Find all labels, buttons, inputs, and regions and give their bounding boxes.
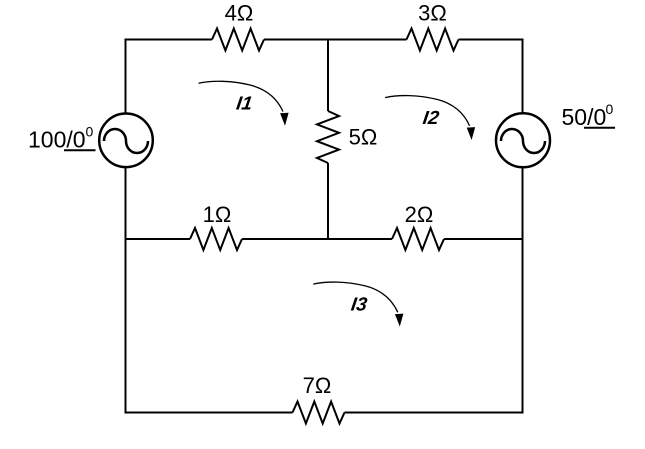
- svg-text:2Ω: 2Ω: [405, 202, 434, 227]
- wire middle vertical lower: [327, 163, 329, 240]
- resistor 7Ω: [293, 402, 345, 424]
- wire right upper: [522, 39, 524, 115]
- wire top-right segment: [459, 39, 523, 41]
- svg-text:0: 0: [606, 101, 614, 117]
- value label 50∠0°: [562, 101, 616, 130]
- resistor 3Ω: [407, 29, 459, 51]
- svg-text:4Ω: 4Ω: [225, 0, 254, 25]
- resistor 2Ω: [392, 228, 444, 250]
- svg-text:100/0: 100/0: [28, 127, 86, 153]
- svg-text:5Ω: 5Ω: [349, 124, 378, 149]
- svg-text:I3: I3: [350, 294, 369, 315]
- wire bottom-left segment: [126, 412, 293, 414]
- wire right lower: [522, 167, 524, 414]
- svg-text:1Ω: 1Ω: [203, 202, 232, 227]
- mesh current arrow I3: [313, 282, 403, 326]
- AC source V2: [496, 113, 550, 167]
- svg-text:7Ω: 7Ω: [303, 373, 332, 398]
- svg-text:I1: I1: [235, 94, 254, 115]
- wire top-middle segment: [264, 39, 407, 41]
- resistor 1Ω: [190, 228, 242, 250]
- mesh current arrow I2: [385, 96, 475, 140]
- wire top-left segment: [126, 39, 213, 41]
- svg-text:0: 0: [86, 124, 94, 140]
- wire middle-left segment: [126, 238, 191, 240]
- wire bottom-right segment: [345, 412, 523, 414]
- wire left lower: [125, 167, 127, 414]
- resistor 5Ω: [317, 111, 339, 163]
- resistor 4Ω: [212, 29, 264, 51]
- wire middle vertical upper: [327, 40, 329, 112]
- AC source V1: [99, 114, 153, 168]
- wire left upper: [125, 39, 127, 115]
- mesh current arrow I1: [199, 81, 289, 125]
- wire middle-right segment: [444, 238, 523, 240]
- svg-text:50/0: 50/0: [562, 104, 607, 130]
- value label 100∠0°: [28, 124, 96, 153]
- svg-text:3Ω: 3Ω: [418, 0, 447, 25]
- wire middle-center segment: [242, 238, 392, 240]
- svg-text:I2: I2: [421, 108, 440, 129]
